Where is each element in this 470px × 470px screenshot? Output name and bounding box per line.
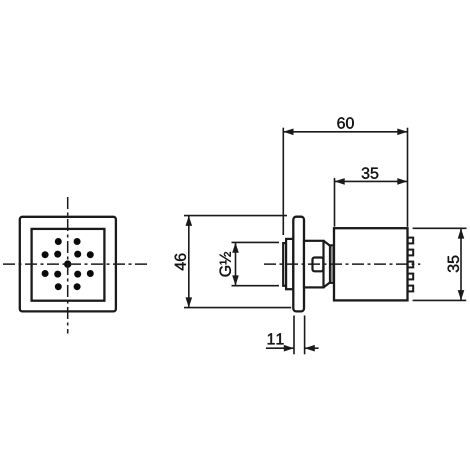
dim 46 line: [188, 216, 190, 308]
dim 11 extension line left: [293, 316, 295, 355]
side view: threaded band: [330, 245, 334, 283]
dim 11 extension line right: [304, 316, 306, 355]
nozzle dots: [42, 238, 94, 290]
front view vertical centerline: [67, 197, 69, 334]
dim 35 right arrow bottom: [458, 290, 465, 300]
dim 35 right label: [448, 256, 459, 273]
dim 46 arrow bottom: [186, 297, 193, 307]
outer ring dots: [87, 251, 94, 258]
dim 35 top label: [362, 167, 379, 178]
dim 60 arrow left: [283, 129, 293, 136]
side view: front body: [304, 241, 324, 288]
dim 46 arrow top: [186, 216, 193, 226]
side view: nut: [313, 258, 324, 272]
dim 60 label: [337, 117, 353, 128]
side view: cylinder body: [334, 228, 408, 300]
side view horizontal centerline: [264, 263, 420, 265]
dim 60 line: [283, 131, 407, 133]
dim 11 arrow left pointing right: [284, 345, 294, 352]
dim 35 top line: [335, 180, 408, 182]
front view: inner square face: [32, 229, 105, 301]
dim 35 top arrow left: [335, 178, 345, 185]
front view horizontal centerline: [3, 263, 147, 265]
side view: rear thread step: [283, 243, 286, 286]
dim 35 top extension line: [334, 178, 336, 227]
side view: nozzle teeth: [408, 238, 414, 292]
dim 60 extension line right: [407, 128, 409, 227]
inner ring dots: [74, 251, 81, 258]
dim G1/2 line: [235, 243, 237, 286]
dim 11 line left: [266, 347, 294, 349]
dim 35 top arrow right: [397, 178, 407, 185]
dim G1/2 label: [220, 252, 231, 277]
centre dot: [64, 260, 71, 267]
side view: cone top edge: [324, 241, 331, 246]
dim 35 right arrow top: [458, 228, 465, 238]
dim 35 right extension line top: [413, 227, 467, 229]
side view: cone bottom edge: [324, 282, 331, 287]
dim G1/2 arrow bottom: [232, 275, 239, 285]
dim 11 line right: [305, 347, 319, 349]
side view: rear connector body: [286, 239, 293, 289]
dim 11 arrow right pointing left: [305, 345, 315, 352]
dim 46 label: [175, 254, 186, 271]
dim G1/2 extension line bottom: [232, 285, 280, 287]
dim 60 arrow right: [397, 129, 407, 136]
dim G1/2 extension line top: [232, 241, 280, 243]
dim 46 extension line bottom: [184, 307, 291, 309]
dim 11 label: [268, 333, 284, 344]
dim 35 right extension line bottom: [413, 299, 467, 301]
dim 46 extension line top: [184, 215, 287, 217]
dim 35 right line: [460, 228, 462, 300]
side view: wall plate: [293, 217, 304, 312]
dim G1/2 arrow top: [232, 243, 239, 253]
front view: outer square plate: [20, 217, 116, 312]
dim 60 extension line left: [282, 128, 284, 235]
